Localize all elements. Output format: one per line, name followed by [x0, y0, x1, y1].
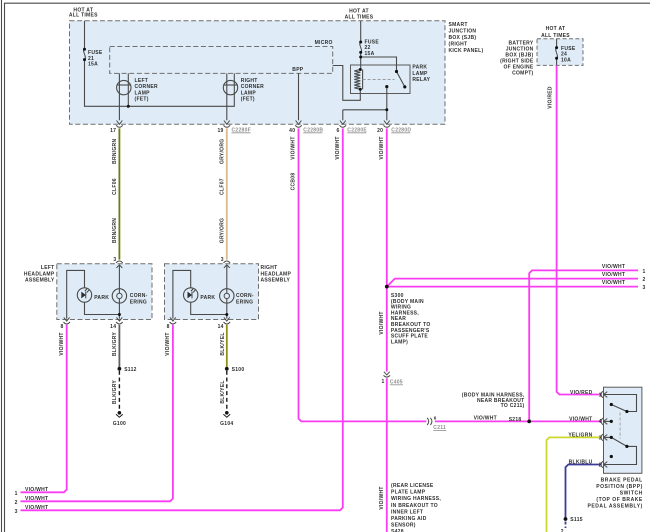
- svg-text:(FET): (FET): [135, 97, 149, 103]
- svg-text:1: 1: [599, 392, 602, 398]
- svg-text:3: 3: [599, 435, 602, 441]
- svg-text:ALL TIMES: ALL TIMES: [541, 33, 570, 39]
- svg-text:CLF07: CLF07: [219, 178, 225, 195]
- svg-text:(TOP OF BRAKE: (TOP OF BRAKE: [596, 497, 643, 503]
- svg-text:VIO/WHT: VIO/WHT: [25, 505, 48, 511]
- svg-text:1: 1: [15, 491, 18, 497]
- svg-text:20: 20: [377, 128, 383, 134]
- svg-text:VIO/WHT: VIO/WHT: [379, 486, 385, 509]
- svg-text:ERING: ERING: [236, 299, 253, 305]
- svg-text:3: 3: [221, 257, 224, 263]
- svg-text:PARK: PARK: [412, 65, 427, 71]
- svg-text:BLK/GRY: BLK/GRY: [112, 331, 118, 356]
- svg-text:LEFT: LEFT: [135, 78, 149, 84]
- svg-text:BLK/YEL: BLK/YEL: [220, 380, 226, 403]
- svg-text:RIGHT: RIGHT: [241, 78, 258, 84]
- svg-text:4: 4: [599, 419, 602, 425]
- svg-text:ASSEMBLY: ASSEMBLY: [261, 278, 291, 284]
- svg-text:VIO/WHT: VIO/WHT: [602, 272, 625, 278]
- svg-text:PLATE LAMP: PLATE LAMP: [391, 490, 426, 496]
- svg-text:3: 3: [113, 257, 116, 263]
- svg-text:G100: G100: [113, 421, 126, 427]
- svg-text:(RIGHT: (RIGHT: [449, 41, 468, 47]
- svg-text:1: 1: [382, 379, 385, 385]
- svg-text:BLK/BLU: BLK/BLU: [569, 460, 593, 466]
- svg-text:JUNCTION: JUNCTION: [449, 29, 477, 35]
- svg-text:TO C211): TO C211): [501, 403, 525, 409]
- svg-text:WIRING HARNESS,: WIRING HARNESS,: [391, 496, 441, 502]
- svg-text:8: 8: [167, 324, 170, 330]
- svg-text:CORNER: CORNER: [135, 84, 158, 90]
- svg-text:40: 40: [289, 128, 295, 134]
- svg-text:ALL TIMES: ALL TIMES: [69, 13, 98, 19]
- svg-text:GRY/ORG: GRY/ORG: [219, 139, 225, 164]
- svg-text:VIO/RED: VIO/RED: [548, 86, 554, 109]
- svg-text:HEADLAMP: HEADLAMP: [24, 271, 55, 277]
- svg-text:6: 6: [336, 128, 339, 134]
- svg-text:VIO/WHT: VIO/WHT: [25, 496, 48, 502]
- svg-text:KICK PANEL): KICK PANEL): [449, 48, 484, 54]
- svg-text:GRY/ORG: GRY/ORG: [219, 218, 225, 243]
- svg-text:S100: S100: [232, 367, 245, 373]
- svg-text:6: 6: [434, 415, 437, 420]
- svg-text:LAMP: LAMP: [412, 71, 428, 77]
- svg-text:VIO/WHT: VIO/WHT: [474, 416, 497, 422]
- svg-text:LAMP): LAMP): [391, 339, 408, 345]
- svg-text:2: 2: [643, 277, 646, 283]
- svg-text:BLK/GRY: BLK/GRY: [112, 379, 118, 404]
- svg-text:COMPT): COMPT): [512, 71, 533, 77]
- svg-text:S218: S218: [509, 417, 522, 423]
- svg-text:CORN-: CORN-: [130, 293, 148, 299]
- svg-text:VIO/WHT: VIO/WHT: [291, 136, 297, 159]
- svg-text:VIO/WHT: VIO/WHT: [602, 280, 625, 286]
- svg-text:14: 14: [110, 324, 116, 330]
- svg-text:2: 2: [599, 462, 602, 468]
- svg-text:3: 3: [15, 509, 18, 515]
- svg-text:(FET): (FET): [241, 97, 255, 103]
- svg-text:YEL/GRN: YEL/GRN: [568, 432, 592, 438]
- svg-text:VIO/RED: VIO/RED: [570, 390, 593, 396]
- svg-text:G104: G104: [220, 421, 233, 427]
- svg-text:VIO/WHT: VIO/WHT: [59, 332, 65, 355]
- svg-text:BPP: BPP: [292, 67, 304, 73]
- svg-text:INNER LEFT: INNER LEFT: [391, 509, 423, 515]
- svg-text:VIO/WHT: VIO/WHT: [602, 264, 625, 270]
- svg-text:2: 2: [15, 500, 18, 506]
- svg-text:HOT AT: HOT AT: [546, 26, 566, 32]
- svg-text:SWITCH: SWITCH: [620, 490, 643, 496]
- svg-text:PARK: PARK: [200, 295, 215, 301]
- svg-text:BRAKE PEDAL: BRAKE PEDAL: [601, 477, 643, 483]
- svg-text:RELAY: RELAY: [412, 77, 430, 83]
- svg-text:15A: 15A: [88, 61, 98, 67]
- svg-text:BRN/GRN: BRN/GRN: [112, 139, 118, 164]
- svg-text:8: 8: [60, 324, 63, 330]
- svg-text:(REAR LICENSE: (REAR LICENSE: [391, 483, 434, 489]
- svg-text:3: 3: [643, 285, 646, 291]
- svg-text:ALL TIMES: ALL TIMES: [345, 14, 374, 20]
- svg-text:VIO/WHT: VIO/WHT: [569, 416, 592, 422]
- svg-text:15A: 15A: [365, 51, 375, 57]
- svg-text:PARK: PARK: [94, 295, 109, 301]
- svg-text:CORNER: CORNER: [241, 84, 264, 90]
- svg-text:VIO/WHT: VIO/WHT: [25, 487, 48, 493]
- svg-text:PARKING AID: PARKING AID: [391, 516, 427, 522]
- svg-text:CLF06: CLF06: [112, 178, 118, 195]
- svg-text:LEFT: LEFT: [41, 265, 55, 271]
- svg-text:ERING: ERING: [130, 299, 147, 305]
- svg-text:SENSOR): SENSOR): [391, 523, 416, 529]
- svg-text:CORN-: CORN-: [236, 293, 254, 299]
- svg-text:1: 1: [643, 269, 646, 275]
- svg-text:17: 17: [110, 128, 116, 134]
- svg-text:S112: S112: [124, 367, 137, 373]
- svg-text:MICRO: MICRO: [315, 40, 333, 46]
- svg-text:PEDAL ASSEMBLY): PEDAL ASSEMBLY): [588, 503, 643, 509]
- svg-text:SMART: SMART: [449, 22, 468, 28]
- svg-text:BOX (SJB): BOX (SJB): [449, 35, 477, 41]
- svg-text:BRN/GRN: BRN/GRN: [112, 218, 118, 243]
- svg-text:VIO/WHT: VIO/WHT: [379, 311, 385, 334]
- svg-text:S115: S115: [570, 517, 583, 523]
- svg-text:LAMP: LAMP: [241, 90, 257, 96]
- svg-text:VIO/WHT: VIO/WHT: [165, 332, 171, 355]
- svg-text:19: 19: [217, 128, 223, 134]
- svg-text:VIO/WHT: VIO/WHT: [335, 136, 341, 159]
- svg-text:14: 14: [218, 324, 224, 330]
- svg-text:CCB08: CCB08: [291, 173, 297, 191]
- svg-text:HEADLAMP: HEADLAMP: [261, 271, 292, 277]
- svg-text:IN BREAKOUT TO: IN BREAKOUT TO: [391, 503, 438, 509]
- svg-text:10A: 10A: [561, 57, 571, 63]
- svg-text:BLK/YEL: BLK/YEL: [220, 332, 226, 355]
- svg-text:VIO/WHT: VIO/WHT: [379, 136, 385, 159]
- svg-text:POSITION (BPP): POSITION (BPP): [596, 484, 643, 490]
- svg-text:LAMP: LAMP: [135, 90, 151, 96]
- svg-text:RIGHT: RIGHT: [261, 265, 278, 271]
- svg-text:ASSEMBLY: ASSEMBLY: [25, 278, 55, 284]
